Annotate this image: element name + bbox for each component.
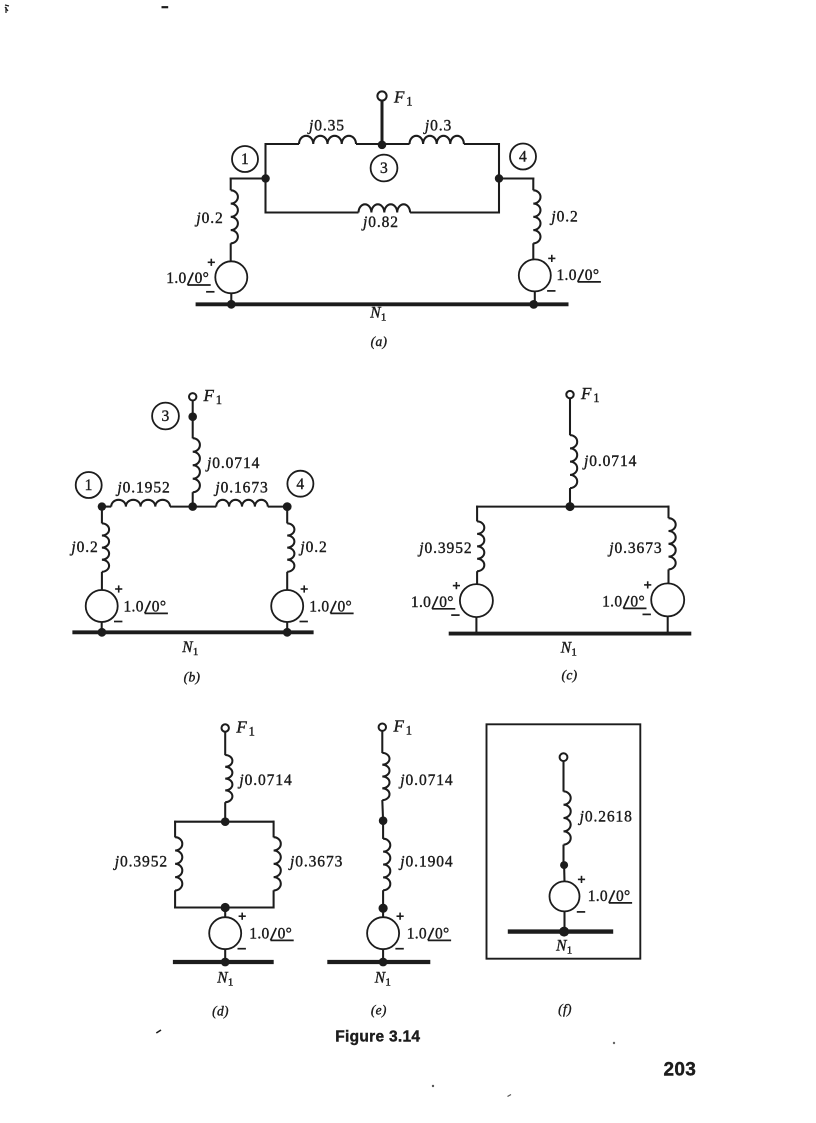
svg-text:j0.0714: j0.0714 bbox=[582, 453, 637, 470]
svg-text:N1: N1 bbox=[216, 970, 233, 989]
svg-text:F1: F1 bbox=[203, 386, 223, 407]
svg-text:1.0: 1.0 bbox=[407, 926, 427, 943]
svg-text:(f): (f) bbox=[558, 1002, 572, 1017]
svg-text:j0.1673: j0.1673 bbox=[213, 480, 268, 497]
svg-text:203: 203 bbox=[664, 1059, 697, 1080]
svg-text:(b): (b) bbox=[184, 670, 201, 685]
svg-text:N1: N1 bbox=[181, 639, 198, 658]
svg-text:N1: N1 bbox=[560, 640, 577, 659]
svg-text:1.0: 1.0 bbox=[557, 267, 577, 284]
svg-text:j0.35: j0.35 bbox=[307, 118, 345, 135]
svg-text:j0.3673: j0.3673 bbox=[607, 540, 662, 557]
svg-text:j0.3952: j0.3952 bbox=[113, 854, 168, 871]
svg-text:1.0: 1.0 bbox=[309, 599, 329, 616]
svg-text:F1: F1 bbox=[580, 384, 600, 405]
svg-text:F1: F1 bbox=[235, 718, 255, 739]
svg-text:j0.2: j0.2 bbox=[549, 209, 578, 226]
svg-text:F1: F1 bbox=[393, 88, 413, 109]
svg-text:3: 3 bbox=[380, 160, 388, 177]
svg-text:(a): (a) bbox=[371, 334, 388, 349]
svg-text:4: 4 bbox=[519, 149, 527, 166]
svg-text:j0.2: j0.2 bbox=[298, 539, 327, 556]
svg-text:j0.2: j0.2 bbox=[69, 539, 98, 556]
svg-text:1.0: 1.0 bbox=[411, 594, 431, 611]
svg-text:(c): (c) bbox=[562, 668, 578, 683]
svg-text:Figure 3.14: Figure 3.14 bbox=[335, 1029, 420, 1046]
svg-text:1.0: 1.0 bbox=[124, 599, 144, 616]
svg-text:1: 1 bbox=[241, 151, 249, 168]
svg-text:j0.82: j0.82 bbox=[361, 214, 399, 231]
svg-text:j0.3: j0.3 bbox=[423, 118, 452, 135]
svg-text:j0.2618: j0.2618 bbox=[578, 809, 633, 826]
svg-text:F1: F1 bbox=[393, 717, 413, 738]
svg-text:j0.3952: j0.3952 bbox=[417, 540, 472, 557]
svg-text:1.0: 1.0 bbox=[602, 594, 622, 611]
svg-text:j0.1952: j0.1952 bbox=[115, 480, 170, 497]
svg-text:j0.0714: j0.0714 bbox=[398, 772, 453, 789]
svg-text:(d): (d) bbox=[212, 1004, 229, 1019]
svg-text:N1: N1 bbox=[374, 970, 391, 989]
svg-text:j0.1904: j0.1904 bbox=[398, 854, 453, 871]
svg-text:1.0: 1.0 bbox=[166, 270, 186, 287]
svg-text:1: 1 bbox=[85, 477, 93, 494]
svg-text:1.0: 1.0 bbox=[249, 926, 269, 943]
svg-text:4: 4 bbox=[296, 476, 304, 493]
svg-text:j0.3673: j0.3673 bbox=[288, 854, 343, 871]
svg-text:N1: N1 bbox=[555, 938, 572, 957]
svg-text:1.0: 1.0 bbox=[588, 888, 608, 905]
svg-text:(e): (e) bbox=[371, 1003, 387, 1018]
svg-text:j0.0714: j0.0714 bbox=[237, 772, 292, 789]
svg-text:3: 3 bbox=[161, 408, 169, 425]
svg-text:j0.0714: j0.0714 bbox=[205, 455, 260, 472]
svg-text:j0.2: j0.2 bbox=[194, 210, 223, 227]
svg-text:N1: N1 bbox=[369, 305, 386, 324]
